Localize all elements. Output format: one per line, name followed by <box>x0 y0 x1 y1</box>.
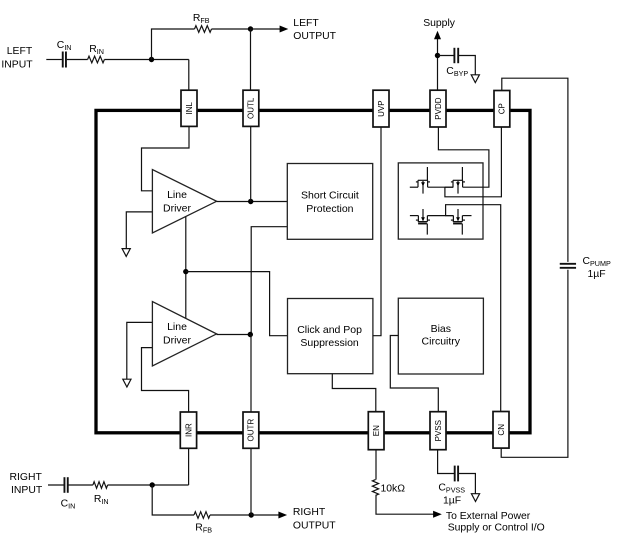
block Short Circuit Protection <box>287 164 372 240</box>
pin CN <box>493 412 509 449</box>
node A junction (left input) <box>149 57 154 62</box>
svg-text:LEFT: LEFT <box>293 18 319 29</box>
svg-text:PVSS: PVSS <box>434 420 443 441</box>
wire supply to CBYP <box>438 55 455 57</box>
wire CIN to RIN <box>67 59 88 61</box>
wire UVP to Click and Pop <box>373 127 381 336</box>
transistor M4 <box>445 209 465 235</box>
wire RIN to node A <box>104 59 188 61</box>
svg-text:Suppression: Suppression <box>300 337 359 349</box>
svg-text:RIN: RIN <box>94 494 109 506</box>
ground (CBYP) <box>471 75 479 83</box>
wire node C to INR <box>188 448 190 485</box>
svg-text:PVDD: PVDD <box>434 97 443 119</box>
svg-text:INL: INL <box>185 102 194 115</box>
capacitor CPUMP <box>560 263 576 265</box>
pin PVSS <box>430 412 446 450</box>
wire M3 to M4 junction to CN <box>427 205 500 412</box>
supply arrow up <box>437 39 439 91</box>
svg-text:To External Power: To External Power <box>446 511 531 522</box>
svg-text:Supply: Supply <box>423 18 456 29</box>
transistor M3 <box>410 209 430 235</box>
svg-text:Protection: Protection <box>306 203 353 215</box>
svg-text:CBYP: CBYP <box>446 66 468 78</box>
svg-text:CP: CP <box>498 103 507 114</box>
pin INL <box>181 90 197 126</box>
svg-text:OUTR: OUTR <box>247 419 256 442</box>
svg-text:RFB: RFB <box>195 522 212 534</box>
wire Click and Pop to EN <box>332 374 376 412</box>
svg-text:Circuitry: Circuitry <box>422 336 461 348</box>
wire CBYP to ground <box>458 56 475 75</box>
svg-text:INR: INR <box>184 423 193 437</box>
wire CPUMP bottom to CN <box>501 270 568 458</box>
ground (line driver U2) <box>123 379 131 387</box>
op-amp U1 Line Driver (left) <box>152 170 216 234</box>
block Click and Pop Suppression <box>288 299 373 374</box>
IC boundary box <box>96 110 530 432</box>
wire Short Circuit Protection lower to OUTR line <box>251 227 287 335</box>
pin PVDD <box>430 90 446 127</box>
line driver U1 ground wire <box>126 212 152 249</box>
svg-text:EN: EN <box>372 425 381 436</box>
svg-text:10kΩ: 10kΩ <box>381 484 406 495</box>
svg-text:RFB: RFB <box>193 13 210 25</box>
svg-text:CN: CN <box>497 424 506 436</box>
svg-text:OUTPUT: OUTPUT <box>293 521 336 532</box>
svg-text:Click and Pop: Click and Pop <box>297 324 362 336</box>
wire RIN to node C <box>108 484 189 486</box>
svg-text:Supply or Control I/O: Supply or Control I/O <box>448 523 545 534</box>
line driver U2 ground wire <box>127 322 153 379</box>
wire EN to 10k resistor <box>375 450 377 480</box>
svg-text:LEFT: LEFT <box>7 46 33 57</box>
wire node A to INL <box>188 60 190 91</box>
wire U1 output <box>217 201 288 203</box>
node D junction (right output) <box>249 512 254 517</box>
supply junction node <box>435 53 440 58</box>
svg-text:OUTPUT: OUTPUT <box>293 31 336 42</box>
wire node A up to RFB <box>152 29 195 60</box>
svg-text:CPVSS: CPVSS <box>438 483 465 495</box>
capacitor CPVSS <box>454 466 456 482</box>
svg-text:UVP: UVP <box>377 100 386 116</box>
block charge pump switches <box>398 163 483 239</box>
svg-text:RIGHT: RIGHT <box>9 472 42 483</box>
wire EN resistor to external arrow <box>376 495 434 514</box>
resistor RFB (right) <box>194 512 210 519</box>
svg-text:INPUT: INPUT <box>1 59 33 70</box>
node U2 output junction <box>248 332 253 337</box>
wire U2 output <box>217 334 251 336</box>
transistor M1 <box>410 167 430 194</box>
pin INR <box>180 412 196 448</box>
pin CP <box>494 91 510 128</box>
svg-text:1µF: 1µF <box>588 269 606 280</box>
pin OUTL <box>243 90 259 126</box>
wire mid node to Click and Pop <box>186 272 287 336</box>
wire OUTL to U1 output <box>250 126 252 201</box>
svg-text:Bias: Bias <box>431 323 451 335</box>
capacitor CIN (left) <box>62 52 64 68</box>
svg-text:Driver: Driver <box>163 335 192 347</box>
wire RFB to node B <box>212 28 251 30</box>
resistor 10k <box>372 480 378 496</box>
svg-text:Line: Line <box>167 321 187 333</box>
wire Bias Circuitry to PVSS <box>390 336 438 412</box>
wire node C down to RFB (right) <box>152 485 194 515</box>
pin UVP <box>373 90 389 127</box>
wire M4 right stub <box>462 215 471 217</box>
svg-text:Short Circuit: Short Circuit <box>301 190 359 202</box>
pin OUTR <box>243 412 259 448</box>
resistor RIN (left) <box>88 56 105 63</box>
wire OUTR to U2 output <box>250 335 252 413</box>
wire node B to OUTL <box>250 29 252 90</box>
node U1 output junction <box>248 199 253 204</box>
node C junction (right input) <box>150 482 155 487</box>
wire CPVSS to ground <box>458 474 475 494</box>
wire RFB to node D <box>210 514 251 516</box>
node mid junction <box>183 269 188 274</box>
wire OUTR to node D <box>250 448 252 515</box>
resistor RFB (left) <box>195 26 212 33</box>
svg-text:OUTL: OUTL <box>247 97 256 119</box>
wire M1 to M2 junction to CP <box>428 127 502 197</box>
transistor M2 <box>445 167 465 194</box>
svg-text:Line: Line <box>167 189 187 201</box>
svg-text:Driver: Driver <box>163 203 192 215</box>
op-amp U2 Line Driver (right channel) <box>152 302 216 367</box>
pin EN <box>368 412 384 450</box>
wire U1 to U2 vertical <box>185 217 187 319</box>
svg-text:RIN: RIN <box>89 44 104 56</box>
svg-text:INPUT: INPUT <box>11 485 43 496</box>
svg-text:CIN: CIN <box>61 498 76 510</box>
ground (CPVSS) <box>471 494 479 502</box>
wire CP to CPUMP top <box>502 78 568 262</box>
node B junction (left output) <box>248 26 253 31</box>
wire PVDD to M2 <box>438 127 489 187</box>
capacitor CIN (right) <box>63 477 65 493</box>
wire CIN to RIN (right) <box>68 484 93 486</box>
wire right output arrow <box>251 514 279 516</box>
line driver U1 input wire from INL <box>142 126 190 190</box>
wire left input <box>46 59 62 61</box>
svg-text:1µF: 1µF <box>443 496 461 507</box>
resistor RIN (right) <box>93 482 108 489</box>
ground (line driver U1) <box>122 249 130 257</box>
svg-text:CIN: CIN <box>57 40 72 52</box>
wire left output arrow <box>251 28 281 30</box>
block Bias Circuitry <box>398 298 483 374</box>
wire right input <box>48 484 64 486</box>
capacitor CBYP <box>453 48 455 63</box>
wire PVSS to CPVSS <box>438 450 455 474</box>
svg-text:CPUMP: CPUMP <box>583 256 611 268</box>
line driver U2 input wire from INR <box>142 348 189 412</box>
svg-text:RIGHT: RIGHT <box>293 507 326 518</box>
